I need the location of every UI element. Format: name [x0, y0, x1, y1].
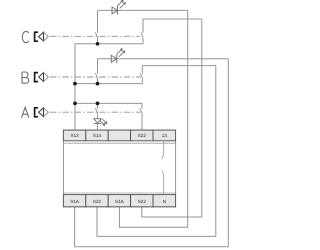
terminal labels bottom row	[70, 199, 166, 204]
wire: C2 row to right	[143, 18, 202, 20]
wire: B2 row to right	[142, 65, 216, 67]
contact B2 vertical	[141, 66, 143, 84]
wire: LED2 row	[98, 58, 229, 60]
LED1	[112, 6, 118, 15]
junction dot	[73, 102, 77, 106]
wire: common rail row B	[75, 83, 142, 85]
svg-text:S1A: S1A	[70, 199, 80, 204]
wire: LED2 branch vertical (contact B1)	[97, 59, 99, 84]
wire: common rail vertical to terminal S13	[74, 44, 76, 130]
node B label	[22, 72, 29, 83]
node C label	[22, 31, 28, 42]
terminal labels top row	[71, 133, 168, 138]
level line C (dash-dot)	[50, 35, 140, 37]
wire: right loop 1 (LED1 return)	[119, 10, 187, 227]
LED3 (pointing down)	[94, 119, 101, 124]
relay block outline	[63, 130, 175, 207]
relay body inner bottom edge	[63, 192, 175, 194]
contact A1 blade	[95, 108, 97, 113]
electrode C (bracket + probe symbol)	[35, 32, 49, 41]
junction dot	[96, 42, 100, 46]
svg-text:N: N	[163, 199, 166, 204]
contact A2 vertical	[141, 103, 143, 130]
svg-text:S13: S13	[71, 133, 80, 138]
internal contact (13 - N)	[162, 141, 164, 195]
svg-text:S22: S22	[93, 199, 102, 204]
contact A2 blade	[140, 108, 142, 113]
wire: right loop 2 (C2 return)	[142, 19, 202, 217]
node A label	[22, 107, 29, 117]
wire: LED1 row	[98, 9, 188, 11]
wire: LED3 branch vertical (contact A1)	[97, 103, 99, 118]
junction dot	[96, 102, 100, 106]
wire: right loop 3 (B2 return)	[97, 66, 216, 237]
wire: common rail row A	[75, 102, 142, 104]
level line B (dash-dot)	[50, 76, 141, 78]
wire: LED1 branch vertical	[97, 10, 99, 43]
junction dot	[96, 82, 100, 86]
svg-text:S22: S22	[138, 133, 147, 138]
junction dot	[73, 82, 77, 86]
terminal boxes bottom row	[63, 195, 175, 207]
wire: common rail row C	[75, 43, 143, 45]
svg-text:S22: S22	[138, 199, 147, 204]
terminal boxes top row	[63, 130, 175, 141]
wire: LED3 to terminal	[97, 123, 99, 130]
electrode A (bracket + probe symbol)	[35, 108, 49, 117]
relay body inner top edge	[63, 142, 175, 144]
svg-text:S14: S14	[93, 133, 102, 138]
contact C2 blade	[141, 32, 143, 37]
svg-text:13: 13	[162, 133, 168, 138]
svg-text:S1A: S1A	[115, 199, 125, 204]
level line A (dash-dot)	[50, 111, 141, 113]
contact B2 blade	[140, 73, 142, 78]
wire: right loop 4 (LED2 return)	[75, 59, 229, 247]
LED2	[111, 54, 117, 63]
electrode B (bracket + probe symbol)	[35, 73, 49, 82]
contact C2 vertical	[142, 19, 144, 44]
contact B1 blade	[95, 73, 97, 78]
contact C1 blade	[95, 32, 97, 37]
